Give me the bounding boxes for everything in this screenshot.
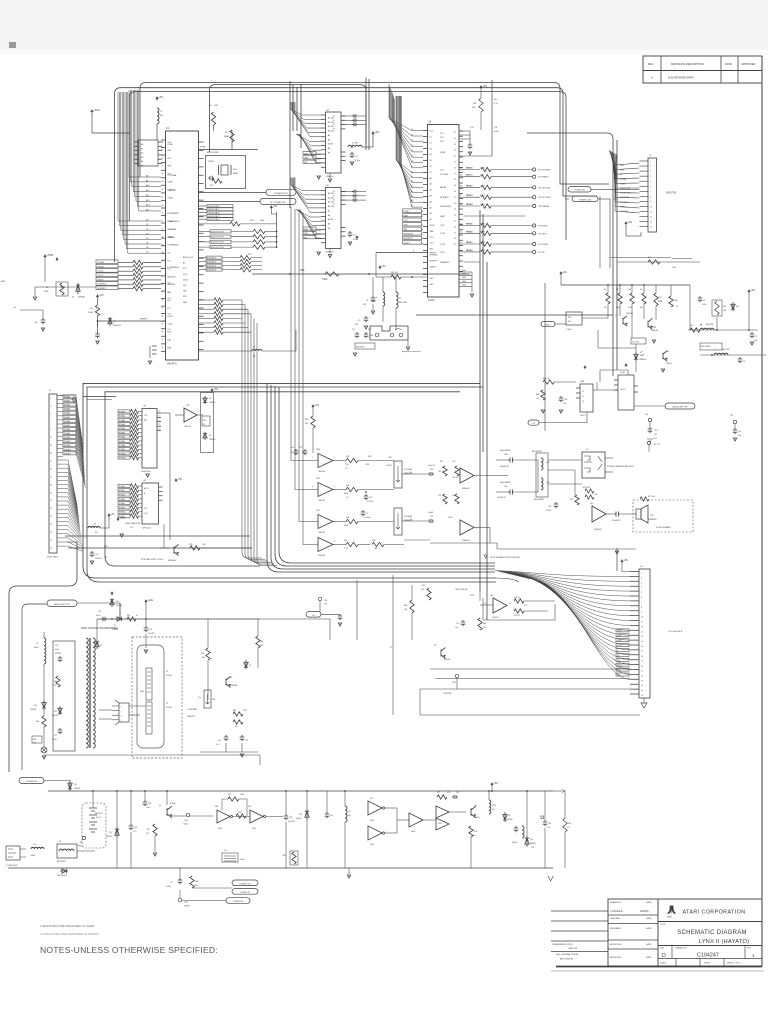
- svg-text:D2: D2: [430, 142, 432, 144]
- svg-text:A3: A3: [141, 156, 143, 159]
- pad TP22: [318, 597, 322, 601]
- C36 cap: [129, 824, 134, 830]
- svg-text:JOYD: JOYD: [440, 252, 446, 254]
- ic U2 SUZY body: [428, 125, 460, 298]
- svg-text:A6: A6: [328, 214, 330, 217]
- bus top line A2: [527, 133, 613, 376]
- +5v at hc164: [175, 479, 177, 482]
- button rows group2: [464, 225, 481, 227]
- audioout boxed rows with resistors: [199, 231, 211, 233]
- svg-text:4: 4: [334, 486, 335, 488]
- bus verticals to rams: [289, 81, 291, 208]
- svg-text:23: 23: [641, 680, 643, 682]
- title cell: [658, 945, 762, 947]
- USB oval: [541, 322, 555, 327]
- transistor 2N3904 mid: [441, 648, 446, 659]
- C59 electrolytic R: [508, 490, 514, 495]
- svg-text:A12: A12: [146, 194, 149, 197]
- CB oval: [528, 420, 539, 425]
- svg-text:37: 37: [50, 540, 52, 542]
- C34 cap: [361, 510, 366, 516]
- svg-text:R39: R39: [305, 419, 308, 421]
- svg-text:AUDIOIN: AUDIOIN: [168, 275, 177, 278]
- svg-text:DOWN: DOWN: [620, 179, 627, 181]
- svg-text:ROMA9: ROMA9: [119, 448, 125, 451]
- svg-text:A5: A5: [430, 206, 432, 209]
- ic U1 right pin stubs: [199, 142, 204, 350]
- tube body: [137, 645, 164, 748]
- rom bus top link bars: [83, 396, 116, 398]
- svg-text:D4: D4: [430, 154, 432, 156]
- svg-text:A4: A4: [141, 160, 143, 163]
- svg-text:ROMA10: ROMA10: [64, 436, 71, 439]
- svg-text:C30: C30: [430, 469, 433, 471]
- svg-text:1N4001: 1N4001: [106, 836, 112, 838]
- svg-text:ROW/: ROW/: [404, 211, 410, 213]
- svg-text:500uF: 500uF: [428, 512, 434, 514]
- v mark bottom right: [548, 876, 553, 881]
- svg-text:JOYL: JOYL: [440, 225, 445, 227]
- ram U4 caps right: [341, 115, 355, 117]
- svg-text:SBF-G30BW: SBF-G30BW: [500, 450, 511, 452]
- svg-text:C52 47u: C52 47u: [452, 477, 458, 479]
- svg-text:D0: D0: [146, 220, 148, 222]
- svg-text:TP6: TP6: [730, 415, 733, 417]
- svg-text:5: 5: [50, 413, 51, 415]
- svg-text:100K: 100K: [44, 291, 49, 293]
- svg-text:0.03u: 0.03u: [494, 131, 499, 133]
- transistor Q12: [623, 316, 627, 326]
- svg-text:L3 FB: L3 FB: [352, 143, 358, 145]
- sub pcb bottom route: [610, 257, 671, 259]
- svg-text:ROMA11: ROMA11: [119, 457, 126, 460]
- D10 diode: [525, 836, 529, 847]
- svg-text:4/26/91: 4/26/91: [640, 909, 649, 913]
- button rows group1: [464, 169, 481, 171]
- svg-text:49: 49: [454, 244, 456, 246]
- audioout junction vertical: [276, 212, 278, 247]
- svg-text:47W: 47W: [658, 297, 662, 299]
- svg-text:43: 43: [460, 175, 462, 177]
- svg-text:RAS/: RAS/: [404, 214, 409, 217]
- rom cart bus verticals with long top horizontals: [83, 383, 496, 578]
- svg-text:COL0/: COL0/: [98, 271, 104, 273]
- RP7 rows: [514, 599, 524, 603]
- svg-text:COL/: COL/: [430, 237, 435, 239]
- svg-text:5w/50F: 5w/50F: [386, 465, 393, 467]
- svg-text:D13: D13: [54, 711, 57, 713]
- hv top rail: [97, 618, 225, 620]
- lcd net label boxes: [616, 629, 629, 632]
- transistor Q13: [648, 319, 652, 329]
- ic U4 left pin stubs: [321, 115, 326, 167]
- R47 pot: [204, 690, 211, 708]
- lcd long wire from contrast: [260, 618, 330, 620]
- svg-text:48: 48: [454, 238, 456, 240]
- svg-text:CP2: CP2: [617, 660, 620, 662]
- svg-text:D12: D12: [299, 814, 302, 816]
- svg-text:6 RP7 4: 6 RP7 4: [514, 597, 520, 599]
- svg-text:BATTERY: BATTERY: [95, 812, 104, 815]
- svg-text:ROMA8: ROMA8: [64, 428, 70, 431]
- power route from rom cart to bottom left: [9, 542, 77, 772]
- svg-text:IOD: IOD: [168, 283, 172, 285]
- svg-text:ROMA5: ROMA5: [119, 431, 125, 434]
- svg-text:ADBANAL: ADBANAL: [168, 228, 177, 231]
- R60 resistor: [376, 276, 391, 278]
- tube electrodes: [146, 668, 152, 700]
- R52 long resistor wire: [617, 261, 700, 263]
- bus verticals mikey-right down: [479, 210, 481, 592]
- svg-text:74HC04: 74HC04: [184, 426, 191, 428]
- svg-text:A7: A7: [430, 218, 432, 221]
- svg-text:L17: L17: [36, 643, 39, 645]
- svg-text:ROM66: ROM66: [467, 231, 473, 233]
- bus C verticals down: [139, 89, 141, 178]
- C58 electrolytic L: [508, 458, 514, 463]
- R47b 47K: [153, 824, 157, 836]
- svg-text:+5VB1: +5VB1: [0, 281, 5, 283]
- svg-text:74HC04: 74HC04: [492, 617, 499, 619]
- svg-text:MHW: MHW: [224, 136, 229, 138]
- svg-text:AUDIO/DAC2: AUDIO/DAC2: [209, 212, 220, 215]
- svg-text:RIGHT: RIGHT: [620, 183, 627, 185]
- inverter T2: [250, 810, 263, 823]
- svg-text:46: 46: [454, 226, 456, 228]
- svg-text:BACKLIGHT OFF: BACKLIGHT OFF: [54, 603, 71, 606]
- svg-text:BUSREQ/: BUSREQ/: [430, 255, 439, 257]
- svg-text:390K: 390K: [344, 525, 349, 527]
- TP C34 pad group: [733, 420, 736, 423]
- svg-text:4: 4: [121, 721, 122, 723]
- C60 cap speaker: [554, 502, 559, 508]
- svg-text:FLALBLDDE: FLALBLDDE: [440, 205, 452, 208]
- LED D16: [41, 747, 47, 753]
- power on oval bottom: [232, 889, 258, 895]
- lcd gnd bottom: [643, 698, 645, 703]
- power transistor Q6: [471, 806, 476, 818]
- svg-text:GND: GND: [462, 277, 467, 279]
- svg-text:10: 10: [509, 603, 511, 605]
- svg-text:D7: D7: [430, 172, 432, 174]
- svg-text:POWER CON: POWER CON: [579, 199, 592, 201]
- svg-text:2N5060: 2N5060: [507, 819, 513, 821]
- svg-text:33u/B 3v: 33u/B 3v: [95, 558, 102, 560]
- svg-text:XTAL2: XTAL2: [168, 196, 174, 199]
- svg-text:R65: R65: [300, 269, 305, 272]
- svg-text:47uFB: 47uFB: [512, 842, 517, 844]
- svg-text:9: 9: [50, 429, 51, 431]
- svg-text:LYNX II (HAYATO): LYNX II (HAYATO): [699, 939, 750, 945]
- audio bottom rail: [404, 539, 430, 541]
- backlight-off oval left wire down: [22, 604, 47, 770]
- svg-text:1N4001: 1N4001: [74, 788, 80, 790]
- svg-text:2: 2: [334, 457, 335, 459]
- svg-text:3: 3: [650, 171, 651, 173]
- svg-text:1: 1: [312, 457, 313, 459]
- svg-text:ROMA14: ROMA14: [64, 452, 71, 455]
- buffer loop box: [483, 598, 555, 620]
- svg-text:POWER JACK: POWER JACK: [6, 864, 19, 867]
- svg-text:4: 4: [413, 251, 414, 253]
- svg-text:D5: D5: [146, 243, 148, 245]
- svg-text:2N4848: 2N4848: [78, 297, 85, 299]
- svg-text:POWERBDU: POWERBDU: [168, 245, 180, 247]
- L3 ferrite + C4 between rams: [372, 132, 375, 136]
- speaker: [636, 509, 641, 519]
- svg-text:A9: A9: [146, 179, 148, 182]
- svg-text:ROM63: ROM63: [467, 195, 473, 197]
- suzy gnd stubs bottom: [459, 271, 472, 273]
- long wire y274 R65: [252, 273, 470, 275]
- svg-text:R55: R55: [570, 499, 573, 501]
- svg-text:D3: D3: [411, 145, 413, 147]
- inverter mid: [409, 813, 423, 827]
- speaker amp circuit: [585, 489, 594, 493]
- svg-text:R46: R46: [201, 653, 204, 655]
- svg-text:D: D: [662, 953, 666, 959]
- svg-text:RLAUDIO: RLAUDIO: [462, 539, 471, 542]
- audio loop verticals: [267, 384, 495, 572]
- svg-text:DATE: DATE: [646, 917, 652, 920]
- svg-text:L31: L31: [546, 482, 549, 484]
- svg-text:4069: 4069: [438, 823, 442, 825]
- svg-text:ROMA0: ROMA0: [119, 410, 125, 413]
- sub pcb connector J2: [648, 158, 657, 232]
- svg-text:4: 4: [641, 587, 642, 589]
- svg-text:COL1/: COL1/: [98, 275, 104, 277]
- L10 ferrite in rom bus: [88, 527, 100, 529]
- L4 coil at mikey bottom right: [199, 350, 253, 352]
- svg-text:+5V: +5V: [214, 387, 219, 391]
- svg-text:100u: 100u: [347, 815, 351, 817]
- TP18 pad: [186, 813, 189, 816]
- svg-text:3: 3: [476, 528, 477, 530]
- svg-text:ROMA1: ROMA1: [64, 399, 70, 402]
- svg-text:DATE: DATE: [646, 901, 652, 904]
- svg-text:TP9 OPTION4: TP9 OPTION4: [538, 197, 550, 199]
- svg-text:PHL1: PHL1: [140, 691, 144, 693]
- svg-text:TP2 UP: TP2 UP: [538, 252, 545, 254]
- svg-text:26: 26: [641, 695, 643, 697]
- svg-text:XTAL0: XTAL0: [168, 235, 175, 238]
- left coil L17: [44, 638, 46, 664]
- svg-text:100u/25V: 100u/25V: [288, 821, 296, 823]
- contrast caps bottom: [224, 735, 229, 741]
- svg-text:RLAUDIO: RLAUDIO: [462, 487, 471, 490]
- svg-text:ROMD5: ROMD5: [119, 507, 125, 509]
- hv top D5 zener: [95, 640, 99, 649]
- headphone jack right wires: [605, 457, 613, 459]
- svg-text:ROMA4: ROMA4: [119, 427, 125, 430]
- svg-text:D10: D10: [530, 839, 533, 841]
- svg-text:14: 14: [159, 420, 161, 422]
- D15 diode left: [42, 700, 46, 710]
- ic U1 MIKEY body: [166, 131, 199, 360]
- svg-text:WE/: WE/: [304, 237, 308, 239]
- svg-text:AUDIOOUT: AUDIOOUT: [183, 256, 194, 259]
- glue bundle 2 labels: [118, 484, 130, 487]
- svg-text:LOW PWR: LOW PWR: [443, 693, 452, 695]
- svg-text:0.039u: 0.039u: [52, 739, 57, 741]
- svg-text:150K: 150K: [322, 278, 328, 281]
- C38 cap: [143, 800, 148, 806]
- svg-text:VCC: VCC: [440, 133, 445, 135]
- svg-text:0.01u: 0.01u: [55, 649, 59, 651]
- svg-text:SCHEMATIC DIAGRAM: SCHEMATIC DIAGRAM: [677, 930, 747, 936]
- svg-text:ROMA1: ROMA1: [119, 415, 125, 418]
- svg-text:C39: C39: [430, 516, 433, 518]
- reset vert wire: [375, 253, 377, 278]
- L14 coil: [31, 847, 44, 849]
- svg-text:3.3u: 3.3u: [547, 827, 550, 829]
- svg-text:RAS/: RAS/: [304, 152, 309, 155]
- suzy ctrl label rows: [403, 209, 422, 212]
- svg-text:39: 39: [454, 185, 456, 187]
- svg-text:POWERBDV: POWERBDV: [168, 267, 180, 269]
- svg-text:2N3904: 2N3904: [474, 817, 480, 819]
- svg-text:C6: C6: [743, 361, 745, 363]
- svg-text:DISPON: DISPON: [617, 665, 624, 667]
- svg-text:R44: R44: [346, 485, 349, 487]
- svg-text:CDAT: CDAT: [168, 181, 174, 184]
- svg-text:58: 58: [162, 284, 164, 286]
- mid small cap: [338, 614, 343, 620]
- svg-text:+5v: +5v: [563, 270, 568, 274]
- svg-text:1N4148: 1N4148: [113, 325, 121, 327]
- svg-text:NONE: NONE: [704, 963, 710, 965]
- C7 cap right: [750, 332, 755, 338]
- left reset gnd: [34, 287, 36, 296]
- power top rail: [48, 790, 553, 792]
- D6 diode top: [111, 592, 113, 595]
- far left reset parts +5VB arrow: [44, 255, 47, 259]
- svg-text:C20: C20: [245, 740, 248, 742]
- svg-text:VCC: VCC: [440, 141, 445, 143]
- svg-text:0.001u: 0.001u: [702, 304, 707, 306]
- svg-text:A1: A1: [141, 147, 143, 150]
- svg-text:+5Vn: +5Vn: [120, 516, 127, 520]
- L6 coil: [383, 292, 385, 306]
- svg-text:+5V: +5V: [628, 220, 633, 224]
- svg-text:DISP1: DISP1: [617, 635, 622, 637]
- svg-text:+5V: +5V: [624, 558, 629, 562]
- TP17 pad bottom: [178, 898, 182, 902]
- svg-text:RT2: RT2: [437, 792, 440, 794]
- svg-text:C4B: C4B: [564, 399, 567, 401]
- svg-text:L15: L15: [224, 850, 227, 852]
- svg-text:TPS: TPS: [324, 603, 327, 605]
- svg-text:ROMA9: ROMA9: [64, 432, 70, 435]
- svg-text:+24v: +24v: [148, 598, 154, 602]
- svg-text:A5: A5: [141, 165, 143, 168]
- svg-text:ROMA13: ROMA13: [64, 448, 71, 451]
- svg-text:TP14: TP14: [654, 430, 658, 432]
- svg-text:47u: 47u: [640, 289, 643, 291]
- svg-text:R68: R68: [483, 623, 486, 625]
- svg-text:Q13: Q13: [666, 351, 669, 353]
- svg-text:+5v: +5v: [111, 512, 116, 516]
- svg-text:SCALE: SCALE: [660, 962, 667, 965]
- svg-text:5: 5: [476, 476, 477, 478]
- R44 after U7B: [333, 489, 346, 491]
- svg-text:D15: D15: [34, 705, 37, 707]
- svg-text:11: 11: [650, 212, 652, 214]
- D1 diode left: [76, 283, 80, 294]
- svg-text:ROMA4: ROMA4: [64, 412, 70, 415]
- reset diode D1: [108, 317, 112, 326]
- suzy right to loop wires: [464, 215, 526, 217]
- tube dashed box: [132, 637, 182, 758]
- svg-text:32: 32: [454, 144, 456, 146]
- svg-text:37: 37: [454, 173, 456, 175]
- rom cart fan mid diagonals: [76, 397, 82, 441]
- gnd triangle under 4040: [146, 474, 149, 477]
- svg-text:CAS/: CAS/: [304, 232, 309, 235]
- svg-text:19: 19: [641, 661, 643, 663]
- contrast top components: [256, 636, 260, 648]
- suzy right stubs: [459, 131, 463, 271]
- svg-text:RST: RST: [144, 420, 147, 422]
- svg-text:R49: R49: [54, 681, 57, 683]
- svg-text:A2: A2: [411, 180, 413, 183]
- expansion jack body: [370, 326, 408, 340]
- svg-text:DATE: DATE: [725, 62, 732, 66]
- svg-text:WE/: WE/: [304, 162, 308, 164]
- curved sweep lower right of audio: [495, 578, 519, 582]
- svg-text:A0: A0: [430, 177, 432, 180]
- svg-text:ROM67: ROM67: [467, 242, 473, 244]
- svg-text:A15: A15: [146, 208, 149, 211]
- pot output arrows: [402, 473, 410, 475]
- svg-text:D3: D3: [430, 148, 432, 150]
- svg-text:+5VA: +5VA: [94, 108, 100, 112]
- svg-text:USED ON: USED ON: [568, 948, 578, 950]
- filter junction dots: [716, 329, 718, 331]
- svg-text:IOTRINAL: IOTRINAL: [168, 174, 178, 177]
- svg-text:R42: R42: [368, 456, 371, 458]
- svg-text:C14: C14: [456, 623, 459, 625]
- svg-text:D2: D2: [411, 140, 413, 142]
- powergood oval: [199, 192, 267, 194]
- svg-text:R5D 10K: R5D 10K: [583, 487, 591, 489]
- svg-text:DISP2: DISP2: [617, 640, 622, 642]
- svg-text:A7: A7: [411, 205, 413, 208]
- gnd under mikey: [152, 346, 157, 354]
- svg-text:D4: D4: [209, 435, 211, 437]
- svg-text:1: 1: [752, 953, 755, 958]
- svg-text:BUF9xx: BUF9xx: [170, 803, 176, 805]
- sub pcb +5v gnd: [625, 222, 627, 225]
- svg-text:C27: C27: [54, 735, 57, 737]
- svg-text:44: 44: [162, 173, 164, 175]
- ram U4 gnd: [329, 173, 331, 178]
- svg-text:220P: 220P: [754, 340, 758, 342]
- audio dac label rows: [199, 205, 208, 207]
- svg-text:47u: 47u: [291, 447, 294, 449]
- svg-text:400: 400: [568, 321, 571, 323]
- svg-text:DISP0: DISP0: [617, 630, 622, 632]
- wires rom area verticals: [169, 455, 171, 540]
- svg-text:D5: D5: [430, 160, 432, 162]
- battery cells: [89, 808, 97, 832]
- svg-text:OPTONE: OPTONE: [440, 174, 449, 176]
- svg-text:C54: C54: [654, 434, 657, 436]
- svg-text:TP23: TP23: [452, 682, 456, 684]
- C44 cap right: [543, 820, 548, 826]
- svg-text:10n: 10n: [455, 627, 458, 629]
- svg-text:SUZY: SUZY: [428, 298, 435, 302]
